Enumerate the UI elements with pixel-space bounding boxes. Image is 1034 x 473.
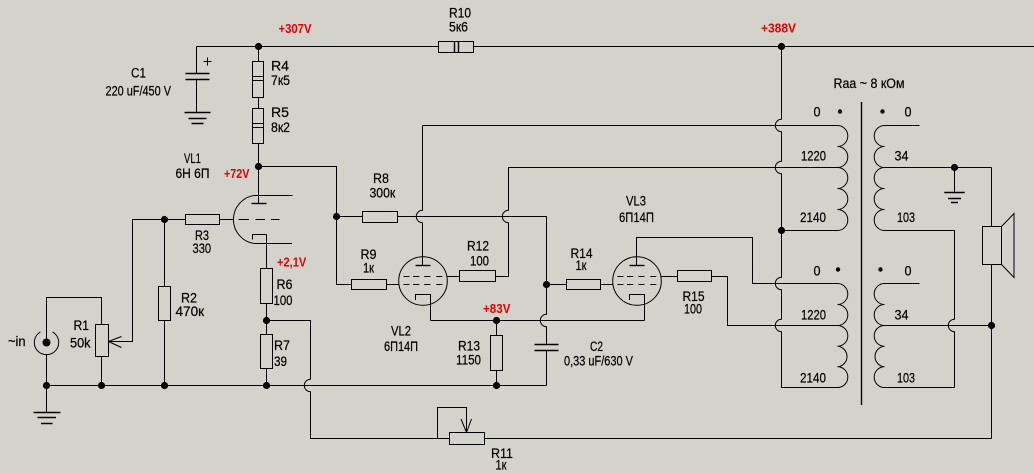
- tube VL2 6П14П envelope: [399, 257, 448, 306]
- resistor R10: [439, 42, 474, 53]
- svg-text:R5: R5: [271, 105, 289, 120]
- svg-text:220 uF/450 V: 220 uF/450 V: [106, 84, 172, 99]
- svg-text:39: 39: [274, 354, 287, 369]
- node rail/R13: [493, 382, 500, 389]
- svg-text:VL3: VL3: [626, 194, 646, 209]
- potentiometer R1: [101, 357, 103, 386]
- node R8 input: [333, 213, 340, 220]
- node rail/R1: [98, 382, 105, 389]
- tube VL3 6П14П envelope: [613, 257, 662, 306]
- resistor R4: [253, 62, 264, 98]
- wire lower secondary 34 tap to speaker return: [885, 325, 992, 327]
- wire VL3 screen to R15: [661, 276, 677, 278]
- svg-text:1220: 1220: [801, 149, 826, 164]
- wire R8 to C2/R14 node: [398, 217, 547, 285]
- svg-text:103: 103: [897, 210, 915, 225]
- capacitor C2: [535, 345, 559, 351]
- wire R14 to VL3 grid: [601, 284, 614, 286]
- wire lower secondary 103 tap: [885, 387, 955, 389]
- svg-text:470к: 470к: [176, 304, 205, 319]
- phasing dot lower secondary: [878, 267, 882, 271]
- phasing dot lower primary: [836, 267, 840, 271]
- wire C1 top lead: [196, 47, 198, 74]
- svg-text:R8: R8: [373, 171, 389, 186]
- VL3 anode lead and wire to lower 0 tap: [637, 238, 838, 284]
- wire top supply rail +307V/+388V: [197, 46, 1034, 48]
- wire upper 2140 tap: [782, 230, 838, 232]
- node rail/R2: [161, 382, 168, 389]
- svg-text:+72V: +72V: [224, 166, 250, 181]
- svg-text:0: 0: [814, 105, 821, 120]
- svg-text:VL2: VL2: [391, 324, 411, 339]
- svg-text:~in: ~in: [8, 334, 26, 349]
- svg-text:330: 330: [193, 241, 212, 256]
- svg-text:6Н 6П: 6Н 6П: [176, 166, 210, 181]
- svg-text:R4: R4: [271, 59, 290, 74]
- VL3 anode plate: [630, 265, 645, 267]
- svg-text:R13: R13: [458, 339, 480, 354]
- resistor R13: [496, 321, 498, 386]
- svg-text:1к: 1к: [576, 258, 587, 273]
- transformer upper secondary winding: [874, 126, 884, 231]
- svg-text:7к5: 7к5: [271, 73, 290, 88]
- node 2140 junction: [778, 227, 785, 234]
- svg-text:34: 34: [895, 149, 909, 164]
- transformer upper primary winding: [838, 126, 848, 231]
- svg-text:1к: 1к: [496, 458, 507, 473]
- wire VL2 anode to upper 0 tap: [423, 125, 838, 127]
- phasing dot upper secondary: [880, 109, 884, 113]
- svg-text:0: 0: [905, 105, 912, 120]
- svg-text:0: 0: [905, 264, 912, 279]
- node R6/R7 junction: [263, 317, 270, 324]
- svg-text:VL1: VL1: [184, 151, 201, 166]
- resistor R15: [678, 271, 712, 282]
- svg-text:0: 0: [814, 264, 821, 279]
- capacitor C1: [186, 74, 210, 80]
- node +307V: [255, 43, 262, 50]
- transformer lower secondary winding: [874, 284, 884, 388]
- node speaker return: [988, 322, 995, 329]
- svg-text:C2: C2: [590, 339, 603, 354]
- svg-text:2140: 2140: [800, 210, 826, 225]
- wire C2 bottom lead: [546, 351, 548, 386]
- svg-text:2140: 2140: [800, 371, 826, 386]
- node C2/R14: [543, 281, 550, 288]
- wire C2 top lead with hop over cathode wire: [540, 285, 546, 345]
- svg-text:1150: 1150: [456, 353, 481, 368]
- wire speaker vertical: [991, 168, 993, 439]
- svg-text:6П14П: 6П14П: [619, 210, 654, 225]
- VL1 cathode: [253, 235, 267, 240]
- wire feedback from R6/R7 node down to R11: [267, 321, 450, 439]
- resistor R7: [261, 335, 273, 369]
- tube VL1 6Н6П triode envelope: [233, 195, 254, 243]
- VL2 anode lead with hop over R8 wire: [416, 126, 422, 266]
- wire R3 to VL1 grid: [220, 219, 235, 221]
- transformer lower primary winding: [838, 284, 848, 388]
- wire +388V feed down to 2140 taps (hops over tap wires): [775, 47, 837, 388]
- wire VL2 screen to R12: [447, 276, 459, 278]
- wire upper secondary 103 tap to lower 103 tap (hop over lower 34): [885, 231, 955, 388]
- node 34/ground: [951, 164, 958, 171]
- wire R9 to VL2 grid: [387, 284, 400, 286]
- ground symbol input: [46, 386, 48, 413]
- node +72V: [255, 163, 262, 170]
- wire R12 to upper 1220 tap (screen feed, hop over R8 wire): [496, 168, 838, 277]
- VL2 anode plate: [416, 265, 431, 267]
- wire upper secondary 34 tap to speaker: [885, 167, 992, 169]
- ground rail: [47, 385, 547, 387]
- svg-text:6П14П: 6П14П: [384, 339, 418, 354]
- phasing dot upper primary: [838, 109, 842, 113]
- VL3 screen grid (dashed): [618, 276, 657, 278]
- ground below C1: [185, 113, 211, 124]
- wire lower secondary 0 tap (open): [885, 283, 920, 285]
- transformer core: [861, 102, 863, 405]
- ground at output: [954, 168, 956, 193]
- node rail/R7: [263, 382, 270, 389]
- svg-text:300к: 300к: [370, 186, 396, 201]
- resistor R6: [261, 269, 273, 304]
- potentiometer R11: [450, 433, 485, 445]
- resistor R3: [186, 215, 220, 225]
- svg-text:1220: 1220: [801, 308, 826, 323]
- svg-text:C1: C1: [131, 66, 146, 81]
- svg-text:R12: R12: [467, 239, 489, 254]
- VL3 control grid (dashed): [618, 284, 657, 286]
- wire R4/R5 vertical chain: [258, 47, 260, 167]
- VL2 screen grid (dashed): [404, 276, 443, 278]
- svg-text:Raa ~ 8 кОм: Raa ~ 8 кОм: [834, 76, 905, 91]
- VL1 grid (dashed): [239, 219, 280, 221]
- svg-text:34: 34: [895, 308, 909, 323]
- wire C1 bottom lead: [196, 80, 198, 113]
- R11 wiper arrow: [461, 419, 472, 433]
- resistor R9: [352, 280, 387, 290]
- R11 wiper wire to left terminal: [438, 408, 467, 439]
- svg-text:50k: 50k: [70, 336, 91, 351]
- svg-text:R6: R6: [277, 277, 293, 292]
- VL1 cathode lead / R6 R7 chain: [266, 235, 268, 386]
- input connector ~in: [34, 332, 58, 355]
- svg-text:+307V: +307V: [279, 21, 312, 36]
- feedback wire from speaker to R11: [485, 438, 992, 440]
- svg-text:+388V: +388V: [761, 21, 796, 36]
- wire input sleeve to ground rail: [46, 355, 48, 386]
- svg-text:8к2: 8к2: [271, 120, 290, 135]
- svg-text:100: 100: [470, 254, 489, 269]
- wire input tip to R1 top: [47, 298, 102, 343]
- R1 wiper arrow and wire to grid node: [109, 337, 122, 348]
- svg-text:+2,1V: +2,1V: [277, 255, 307, 270]
- svg-text:+83V: +83V: [483, 301, 511, 316]
- resistor R5: [253, 109, 264, 144]
- node +83V cathode junction: [431, 320, 645, 322]
- node rail/input: [43, 382, 50, 389]
- svg-text:103: 103: [897, 371, 915, 386]
- wire R9 branch: [337, 217, 352, 285]
- VL1 anode lead: [258, 167, 260, 204]
- VL3 cathode: [630, 295, 645, 321]
- wire R15 to lower 1220 tap: [712, 277, 838, 326]
- svg-text:100: 100: [684, 302, 702, 317]
- node grid VL1: [161, 216, 168, 223]
- resistor R8: [337, 216, 363, 218]
- node +388V: [778, 43, 785, 50]
- svg-text:R10: R10: [449, 6, 471, 21]
- svg-text:R1: R1: [74, 318, 90, 333]
- wire upper secondary 0 tap (open): [885, 125, 920, 127]
- VL1 anode plate: [252, 203, 267, 205]
- speaker: [983, 227, 1002, 265]
- resistor R2: [164, 220, 166, 386]
- svg-text:100: 100: [274, 293, 293, 308]
- resistor R12: [460, 271, 496, 282]
- svg-text:0,33 uF/630 V: 0,33 uF/630 V: [564, 354, 633, 369]
- svg-text:1к: 1к: [363, 261, 374, 276]
- resistor R14: [547, 284, 567, 286]
- VL2 cathode: [416, 295, 431, 321]
- wire VL1 plate to R8/R9 node: [259, 167, 337, 217]
- svg-text:R7: R7: [274, 338, 290, 353]
- svg-text:5к6: 5к6: [449, 20, 468, 35]
- VL2 control grid (dashed): [404, 284, 443, 286]
